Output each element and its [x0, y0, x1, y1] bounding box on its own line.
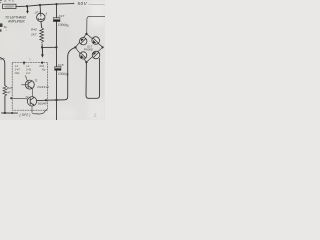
wire T2 base from module edge — [11, 97, 27, 100]
node bridge left vertex — [74, 46, 76, 48]
text labels — [0, 1, 97, 118]
transistor T2 — [27, 97, 36, 106]
wire node to main line — [42, 46, 56, 48]
wire bridge diamond edges — [75, 34, 102, 62]
node bridge top vertex — [85, 33, 87, 35]
transistor T1 — [22, 80, 35, 89]
diode D17c (bridge bottom-left) — [80, 52, 87, 59]
diode D17b (bridge top-right) — [92, 37, 100, 45]
wire to T1 collector — [25, 76, 27, 81]
paper background — [0, 0, 105, 120]
wire top rail — [16, 4, 73, 7]
wire from right edge corner down to bridge — [87, 16, 105, 34]
node junction on rail at C17 — [55, 3, 57, 5]
node pin on module top edge right — [41, 62, 43, 64]
resistor R37 (top left box symbol) — [3, 4, 16, 8]
wire C17 down — [56, 22, 58, 67]
module internal labels — [14, 64, 46, 75]
wire left branch with R38 — [0, 58, 5, 86]
node junction on rail at arrow — [26, 5, 28, 7]
cut-off label above R37 — [0, 1, 14, 3]
wire bridge left vertex to lower main line — [57, 47, 76, 100]
wire hook at SP2 — [33, 110, 47, 114]
node bridge bottom vertex — [85, 61, 87, 63]
wire T2 emitter down — [31, 106, 33, 113]
diode D17d (bridge bottom-right) — [92, 51, 100, 59]
capacitor C17 — [53, 18, 60, 19]
node pin on module top edge — [23, 62, 25, 64]
main vertical wire from rail to C17 — [56, 4, 58, 18]
node on main line — [55, 46, 57, 48]
wire lamp to R40 — [40, 22, 43, 28]
diode D17a (bridge top-left) — [80, 38, 87, 45]
capacitor C18 — [55, 67, 61, 68]
resistor R40 (vertical zigzag) — [40, 28, 44, 43]
node bridge right vertex — [102, 46, 104, 48]
cut-off label at left edge C16 — [0, 23, 7, 33]
wire arrow into amplifier module — [41, 47, 43, 54]
wire C18 down to bottom edge — [56, 71, 58, 120]
resistor R38 (vertical zigzag) — [3, 85, 7, 96]
wire R40 to node — [41, 44, 43, 48]
lamp LP1 — [39, 5, 42, 13]
node below R40 — [41, 46, 43, 48]
wire T1 emitter to T2 — [31, 89, 33, 96]
node main line lower — [55, 99, 57, 101]
node junction on rail at LP1 — [39, 4, 41, 6]
wire T2 collector to main line — [37, 99, 57, 102]
wire faint rail continuation right — [89, 3, 105, 6]
wire stub below module pin — [23, 63, 25, 65]
node bottom left — [4, 112, 6, 114]
wire arrow to left hand amplifier — [27, 6, 29, 11]
wire bridge bottom U to right vertex — [86, 58, 100, 98]
wire bottom rail — [2, 112, 18, 114]
dashed module box SP2 — [12, 62, 47, 110]
